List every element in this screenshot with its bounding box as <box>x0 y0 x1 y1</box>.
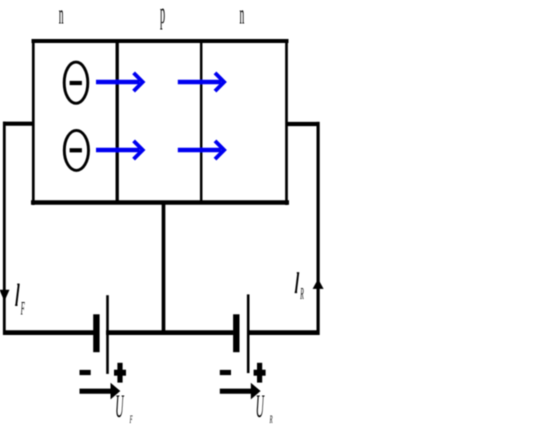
p-n junction divider line <box>200 41 203 203</box>
svg-text:R: R <box>269 413 273 426</box>
wire: bottom rail right segment <box>249 330 320 335</box>
electron symbol e2 (circle with minus) <box>64 130 88 170</box>
p region label (middle) <box>160 0 165 30</box>
label U_R <box>256 389 273 426</box>
current direction arrowhead I_F (down) <box>0 290 10 301</box>
battery U_R minus polarity sign <box>220 370 231 375</box>
transistor body box top border <box>32 39 289 43</box>
n region label (left) <box>59 0 64 30</box>
n-p junction divider line <box>116 41 119 203</box>
battery U_R positive plate (long thin) <box>247 294 250 373</box>
svg-text:n: n <box>240 0 245 30</box>
blue electron-flow arrow row1 left <box>96 73 143 91</box>
transistor body box left border <box>32 39 35 205</box>
blue electron-flow arrow row1 right <box>178 73 224 91</box>
wire: bottom rail middle segment <box>106 330 233 335</box>
transistor body box bottom border <box>31 200 289 204</box>
svg-text:U: U <box>115 389 124 425</box>
wire: left horizontal stub from box to left rail <box>3 122 33 126</box>
battery U_R negative plate (short thick) <box>233 314 239 352</box>
label I_R <box>295 273 304 303</box>
wire: right horizontal stub from box to right rail <box>286 122 320 126</box>
blue electron-flow arrow row2 right <box>178 141 224 159</box>
blue electron-flow arrow row2 left <box>96 141 143 159</box>
battery U_R plus polarity sign <box>254 363 266 383</box>
battery U_F plus polarity sign <box>114 363 126 383</box>
svg-text:U: U <box>256 389 265 425</box>
current direction arrowhead I_R (up) <box>313 279 324 289</box>
svg-text:n: n <box>59 0 64 30</box>
svg-text:F: F <box>129 413 133 426</box>
wire: bottom rail left segment <box>3 330 94 335</box>
wire: left vertical rail <box>3 122 6 335</box>
label I_F <box>15 284 25 319</box>
svg-text:F: F <box>20 298 25 319</box>
transistor body box right border <box>285 39 288 205</box>
label U_F <box>115 389 132 426</box>
n region label (right) <box>240 0 245 30</box>
wire: middle lead from box bottom to bottom rail <box>162 204 166 334</box>
wire: right vertical rail <box>317 122 320 335</box>
battery U_F negative plate (short thick) <box>93 314 99 352</box>
svg-text:p: p <box>160 0 165 30</box>
battery U_R voltage direction arrow <box>220 383 261 400</box>
battery U_F minus polarity sign <box>80 370 91 375</box>
electron symbol e1 (circle with minus) <box>64 62 88 103</box>
svg-text:R: R <box>300 284 304 303</box>
battery U_F voltage direction arrow <box>80 383 121 400</box>
battery U_F positive plate (long thin) <box>106 295 109 374</box>
